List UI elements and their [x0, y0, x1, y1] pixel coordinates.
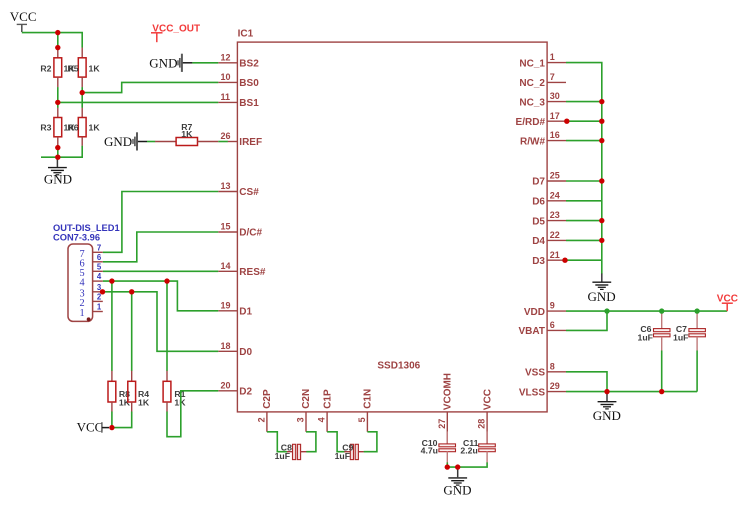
- junction C10 bottom: [445, 464, 450, 469]
- svg-text:25: 25: [550, 171, 560, 181]
- junction GND rail: [55, 155, 60, 160]
- pin 26 IREF: [221, 131, 263, 148]
- wire pin4 to C9: [327, 432, 344, 452]
- svg-text:1K: 1K: [181, 129, 193, 139]
- svg-text:4: 4: [317, 417, 327, 422]
- ground GND left: [44, 157, 72, 186]
- label SSD1306 value: [377, 360, 420, 371]
- capacitor C10 4.7u: [421, 431, 456, 462]
- pin 5 C1N: [357, 389, 374, 432]
- svg-text:27: 27: [437, 419, 447, 429]
- supply VCC_OUT: [151, 24, 200, 43]
- resistor R2 1K: [40, 48, 75, 88]
- svg-text:VCC: VCC: [482, 389, 493, 410]
- wire net NC bus vertical: [566, 63, 602, 275]
- connector pin 7: [80, 243, 103, 260]
- svg-text:4.7u: 4.7u: [421, 446, 438, 456]
- pin 16 R/W#: [520, 130, 566, 147]
- wire net D2 loop to R1: [167, 391, 218, 437]
- svg-text:GND: GND: [443, 483, 471, 498]
- resistor R4 1K: [128, 371, 150, 412]
- pin 7 NC_2: [519, 72, 566, 89]
- svg-text:1uF: 1uF: [275, 451, 290, 461]
- svg-text:D4: D4: [532, 236, 545, 247]
- junction VSS / VLSS: [604, 389, 609, 394]
- wire R1 top drop: [166, 281, 168, 371]
- svg-text:GND: GND: [149, 55, 177, 70]
- pin 25 D7: [532, 171, 566, 188]
- wire net BS2: [192, 62, 218, 64]
- resistor R1 1K: [163, 371, 186, 412]
- svg-text:8: 8: [550, 361, 555, 371]
- junction NC_3 / bus: [599, 99, 604, 104]
- capacitor C9 1uF: [335, 442, 364, 461]
- svg-text:1K: 1K: [89, 123, 101, 133]
- svg-text:R2: R2: [40, 64, 51, 74]
- svg-text:BS1: BS1: [239, 98, 259, 109]
- svg-text:23: 23: [550, 210, 560, 220]
- junction pin3 net / R4: [129, 289, 134, 294]
- svg-text:1uF: 1uF: [335, 451, 350, 461]
- wire net VLSS rail: [566, 391, 697, 393]
- svg-text:2: 2: [256, 417, 266, 422]
- svg-text:CON7-3.96: CON7-3.96: [53, 233, 100, 243]
- wire net CS#: [103, 192, 219, 253]
- capacitor C8 1uF: [275, 442, 307, 461]
- svg-text:R/W#: R/W#: [520, 136, 545, 147]
- svg-text:D2: D2: [239, 387, 252, 398]
- capacitor C6 1uF: [638, 311, 670, 351]
- pin 13 CS#: [218, 181, 259, 198]
- svg-text:29: 29: [550, 381, 560, 391]
- svg-text:18: 18: [221, 341, 231, 351]
- pin 15 D/C#: [218, 222, 262, 239]
- wire net GND left rail: [41, 146, 82, 158]
- resistor R3 1K: [40, 108, 75, 146]
- resistor R8 1K: [108, 371, 131, 412]
- svg-text:19: 19: [221, 300, 231, 310]
- svg-text:1: 1: [80, 308, 85, 319]
- svg-text:1: 1: [97, 303, 102, 312]
- supply VCC top-left: [10, 9, 37, 32]
- pin 11 BS1: [218, 92, 259, 109]
- svg-text:22: 22: [550, 230, 560, 240]
- svg-text:28: 28: [477, 419, 487, 429]
- IC IC1 body: [237, 42, 547, 412]
- junction VCC rail / R2: [55, 30, 60, 35]
- svg-text:VSS: VSS: [525, 368, 545, 379]
- svg-text:4: 4: [80, 278, 85, 289]
- wire VSS down to VLSS: [566, 372, 607, 392]
- svg-text:C1P: C1P: [322, 389, 333, 409]
- resistor R6 1K: [68, 108, 101, 146]
- svg-text:7: 7: [550, 72, 555, 82]
- junction pin4 net / R1: [164, 278, 169, 283]
- svg-text:D1: D1: [239, 307, 252, 318]
- connector X1 OUT-DIS_LED1 CON7-3.96: [53, 223, 120, 321]
- svg-text:OUT-DIS_LED1: OUT-DIS_LED1: [53, 223, 120, 233]
- capacitor C7 1uF: [673, 311, 705, 351]
- svg-text:IC1: IC1: [238, 29, 254, 40]
- svg-text:VCC: VCC: [10, 9, 37, 24]
- svg-text:VCC: VCC: [77, 420, 104, 435]
- junction D5 / bus: [599, 218, 604, 223]
- svg-text:BS0: BS0: [239, 78, 259, 89]
- svg-text:16: 16: [550, 130, 560, 140]
- pin 2 C2P: [256, 389, 273, 432]
- pin 19 D1: [218, 300, 252, 317]
- svg-text:NC_1: NC_1: [519, 58, 545, 69]
- ground GND under VLSS: [593, 392, 621, 423]
- svg-text:17: 17: [550, 111, 560, 121]
- junction R2 top pin: [55, 45, 60, 50]
- wire net BS0 to pin 10: [82, 82, 218, 92]
- junction R5 bottom / BS0: [80, 90, 85, 95]
- svg-text:10: 10: [221, 72, 231, 82]
- wire R4 top drop: [131, 292, 133, 371]
- svg-text:D7: D7: [532, 177, 545, 188]
- pin 24 D6: [532, 190, 566, 207]
- pin 23 D5: [532, 210, 566, 227]
- junction R3 bottom pin: [55, 145, 60, 150]
- junction E/RD# pin end: [564, 119, 569, 124]
- wire net BS1 R2 bottom to R3 top: [57, 87, 59, 108]
- pin 18 D0: [218, 341, 252, 358]
- wire net BS1 horizontal to pin 11: [58, 101, 219, 103]
- junction R/W# / bus: [599, 138, 604, 143]
- junction VCC bottom rail: [109, 425, 114, 430]
- svg-text:D5: D5: [532, 216, 545, 227]
- svg-text:R5: R5: [68, 64, 79, 74]
- capacitor C11 2.2u: [460, 431, 495, 462]
- supply VCC right: [717, 293, 738, 311]
- wire GND to R7: [147, 141, 155, 143]
- svg-text:R3: R3: [40, 123, 51, 133]
- wire pin5 to C9: [364, 432, 377, 452]
- pin 20 D2: [218, 380, 252, 397]
- connector pin 4: [80, 272, 103, 289]
- junction VDD / C7: [694, 308, 699, 313]
- svg-text:7: 7: [97, 243, 101, 252]
- svg-text:13: 13: [221, 181, 231, 191]
- wire net BS0 R5 bottom to R6 top: [81, 87, 83, 108]
- wire pin2 to C8: [267, 432, 288, 452]
- svg-text:NC_3: NC_3: [519, 97, 545, 108]
- svg-text:E/RD#: E/RD#: [516, 117, 546, 128]
- wire R3 bottom to rail: [57, 146, 59, 158]
- svg-text:CS#: CS#: [239, 187, 259, 198]
- svg-text:R6: R6: [68, 123, 79, 133]
- connector pin 6: [80, 253, 103, 270]
- svg-text:1uF: 1uF: [638, 333, 653, 343]
- pin 1 NC_1: [519, 52, 566, 69]
- svg-text:D/C#: D/C#: [239, 228, 262, 239]
- svg-text:9: 9: [550, 301, 555, 311]
- wire R8 top drop: [111, 281, 113, 371]
- wire E/RD# to bus: [567, 120, 602, 122]
- connector pin 2: [80, 292, 103, 309]
- svg-text:26: 26: [221, 131, 231, 141]
- pin 28 VCC: [477, 389, 494, 444]
- svg-text:24: 24: [550, 190, 560, 200]
- svg-text:20: 20: [221, 380, 231, 390]
- junction D3 pin end: [562, 258, 567, 263]
- wire net VCC bottom rail: [112, 412, 132, 428]
- ground GND under bus: [588, 274, 616, 304]
- svg-text:GND: GND: [104, 134, 132, 149]
- junction VDD / C6: [659, 308, 664, 313]
- junction D7 / bus: [599, 178, 604, 183]
- wire NC_3 to bus: [566, 101, 602, 103]
- pin 17 E/RD#: [516, 111, 566, 128]
- ground GND at IREF: [104, 132, 147, 150]
- svg-text:6: 6: [97, 253, 102, 262]
- svg-text:VCOMH: VCOMH: [443, 373, 454, 410]
- svg-text:BS2: BS2: [239, 59, 259, 70]
- svg-text:C2P: C2P: [262, 389, 273, 409]
- svg-text:5: 5: [357, 417, 367, 422]
- label IC1 name: [238, 29, 254, 40]
- wire VBAT to VDD rail: [566, 311, 607, 330]
- svg-text:1K: 1K: [89, 64, 101, 74]
- svg-text:GND: GND: [44, 172, 72, 187]
- pin 3 C2N: [296, 389, 313, 432]
- svg-text:SSD1306: SSD1306: [377, 360, 420, 371]
- svg-text:C2N: C2N: [301, 389, 312, 409]
- svg-text:14: 14: [221, 261, 231, 271]
- ground GND at BS2: [149, 54, 192, 72]
- ground GND bottom-center: [443, 467, 471, 498]
- svg-text:4: 4: [97, 272, 102, 281]
- wire C6 to VLSS: [661, 351, 663, 392]
- wire C7 to VLSS: [696, 351, 698, 392]
- supply VCC bottom-left: [77, 420, 109, 435]
- svg-text:GND: GND: [593, 408, 621, 423]
- wire D5 to bus: [566, 220, 602, 222]
- svg-text:GND: GND: [588, 289, 616, 304]
- svg-text:VLSS: VLSS: [519, 387, 545, 398]
- junction R2-R3 / BS1: [55, 100, 60, 105]
- svg-text:C1N: C1N: [363, 389, 374, 409]
- wire net VCC from supply to rail: [22, 33, 82, 48]
- svg-text:1uF: 1uF: [673, 333, 688, 343]
- svg-text:21: 21: [550, 250, 560, 260]
- junction E/RD# / bus: [599, 119, 604, 124]
- svg-text:D0: D0: [239, 347, 252, 358]
- wire net VDD rail: [566, 310, 727, 312]
- pin 14 RES#: [218, 261, 266, 278]
- wire net VCC branch to R2: [57, 33, 59, 48]
- pin 21 D3: [532, 250, 566, 267]
- resistor R7 1K: [155, 122, 218, 146]
- svg-text:VBAT: VBAT: [519, 326, 545, 337]
- pin 30 NC_3: [519, 91, 566, 108]
- svg-text:30: 30: [550, 91, 560, 101]
- pin 4 C1P: [317, 389, 334, 432]
- connector pin 3: [80, 283, 103, 300]
- pin 27 VCOMH: [437, 373, 454, 444]
- junction pin4 net / R8: [109, 278, 114, 283]
- pin 6 VBAT: [519, 320, 566, 337]
- resistor R5 1K: [68, 48, 101, 88]
- wire net pin4 to D1: [103, 281, 219, 311]
- junction D4 / bus: [599, 238, 604, 243]
- wire net pin3 to D0: [103, 292, 219, 352]
- svg-text:D3: D3: [532, 256, 545, 267]
- svg-text:IREF: IREF: [239, 137, 262, 148]
- wire D7 to bus: [566, 180, 602, 182]
- svg-text:5: 5: [97, 262, 102, 271]
- wire R7 to pin 26: [218, 141, 228, 143]
- pin 12 BS2: [218, 52, 259, 69]
- junction VDD / VBAT: [604, 308, 609, 313]
- wire D6 to bus: [566, 200, 602, 202]
- wire pin3 to C8: [306, 432, 316, 452]
- svg-text:RES#: RES#: [239, 267, 266, 278]
- pin 9 VDD: [524, 301, 566, 318]
- svg-text:3: 3: [296, 417, 306, 422]
- junction pin3 stub: [100, 289, 105, 294]
- junction GND stem / rail: [455, 464, 460, 469]
- svg-text:VDD: VDD: [524, 307, 545, 318]
- svg-text:6: 6: [550, 320, 555, 330]
- connector pin 5: [80, 262, 103, 279]
- wire C10 to GND: [446, 462, 448, 467]
- wire net RES#: [103, 270, 219, 272]
- svg-text:15: 15: [221, 222, 231, 232]
- wire C11 to GND rail: [447, 462, 487, 467]
- wire net D/C#: [103, 232, 219, 262]
- pin 29 VLSS: [519, 381, 566, 398]
- pin 22 D4: [532, 230, 566, 247]
- svg-text:12: 12: [221, 52, 231, 62]
- svg-text:1K: 1K: [138, 397, 150, 407]
- pin 10 BS0: [218, 72, 259, 89]
- wire R/W# to bus: [566, 140, 602, 142]
- svg-text:D6: D6: [532, 197, 545, 208]
- wire D3 to bus: [565, 259, 602, 261]
- junction C6 / VLSS: [659, 389, 664, 394]
- svg-text:2.2u: 2.2u: [460, 446, 477, 456]
- svg-text:NC_2: NC_2: [519, 78, 545, 89]
- svg-text:11: 11: [221, 92, 231, 102]
- wire D4 to bus: [566, 239, 602, 241]
- pin 8 VSS: [525, 361, 566, 378]
- svg-text:1: 1: [550, 52, 555, 62]
- connector pin 1: [80, 303, 103, 320]
